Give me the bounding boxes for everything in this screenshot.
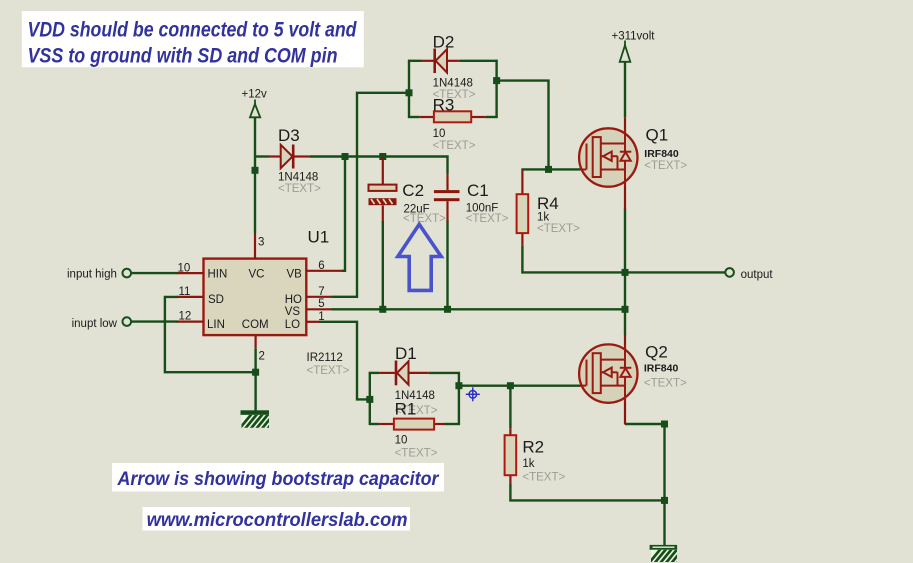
wire VS pin5 to midpoint rail: [332, 308, 626, 310]
wire COM pin2 to ground: [254, 348, 256, 410]
pin 2 stub COM: [255, 335, 257, 348]
svg-text:1N4148: 1N4148: [278, 172, 318, 184]
svg-text:D3: D3: [278, 126, 300, 145]
capacitor C2: [369, 157, 397, 223]
svg-text:10: 10: [178, 263, 191, 275]
transistor Q2: [579, 335, 638, 425]
terminal input high: [123, 269, 132, 278]
svg-text:output: output: [741, 269, 774, 281]
caption box VDD/VSS note: [22, 11, 364, 67]
wire D2/R3 loop left vertical: [408, 60, 410, 118]
wire +12v rail: [254, 117, 256, 233]
svg-text:<TEXT>: <TEXT>: [466, 213, 509, 225]
svg-text:Arrow is showing bootstrap cap: Arrow is showing bootstrap capacitor: [117, 468, 440, 490]
WIRES-GREEN: [131, 60, 725, 545]
junction D1/R1 loop left: [366, 396, 373, 403]
caption box arrow note: [112, 463, 444, 492]
svg-text:<TEXT>: <TEXT>: [433, 140, 476, 152]
resistor R2: [505, 428, 517, 484]
wire D2 left: [408, 60, 421, 62]
junction D2/R3 loop right: [493, 77, 500, 84]
svg-text:<TEXT>: <TEXT>: [395, 448, 438, 460]
svg-text:1k: 1k: [537, 212, 549, 224]
wire D1/R1 loop left vertical: [369, 372, 371, 425]
pin 11 stub SD: [177, 296, 204, 298]
ground COM: [236, 410, 288, 433]
svg-text:LIN: LIN: [207, 319, 225, 331]
svg-text:<TEXT>: <TEXT>: [522, 472, 565, 484]
resistor R4: [517, 169, 529, 245]
svg-text:<TEXT>: <TEXT>: [537, 223, 580, 235]
svg-text:VSS to ground with SD and COM: VSS to ground with SD and COM pin: [28, 45, 338, 68]
wire D1/R1 loop right vertical: [458, 372, 460, 425]
junction C1 bottom on VS net: [444, 306, 451, 313]
svg-text:<TEXT>: <TEXT>: [644, 160, 687, 172]
wire R3 left: [408, 116, 419, 118]
svg-text:input high: input high: [67, 269, 117, 281]
svg-text:R3: R3: [433, 96, 455, 115]
ic U1 IR2112 body: [204, 259, 307, 336]
junction HO net at D2 loop: [406, 89, 413, 96]
junction SD-COM net: [252, 369, 259, 376]
wire Q2 source to ground rail: [625, 424, 665, 545]
transistor Q1: [579, 117, 638, 209]
wire D1 left: [369, 372, 379, 374]
wire input high: [131, 272, 178, 274]
wire D2 right: [459, 60, 497, 62]
pin 6 stub VB: [306, 270, 342, 272]
svg-text:<TEXT>: <TEXT>: [644, 378, 687, 390]
svg-text:HO: HO: [285, 294, 302, 306]
diode D2: [421, 49, 459, 74]
wire R1 left: [369, 423, 379, 425]
resistor R3: [419, 111, 486, 122]
pin 5 stub VS: [306, 308, 331, 310]
svg-text:+12v: +12v: [242, 89, 268, 101]
svg-text:IRF840: IRF840: [644, 148, 679, 160]
junction C2 bottom on VS net: [379, 306, 386, 313]
diode D1: [379, 361, 428, 386]
svg-text:12: 12: [179, 311, 192, 323]
svg-text:VC: VC: [249, 269, 265, 281]
wire R2 bottom to ground rail: [510, 484, 665, 500]
svg-text:IRF840: IRF840: [644, 363, 679, 375]
svg-text:1k: 1k: [522, 458, 534, 470]
junction +12v rail: [252, 167, 259, 174]
capacitor C1: [434, 173, 460, 222]
wire R1 right: [445, 423, 460, 425]
wire SD pin11 to COM net: [165, 297, 257, 372]
wire gate Q2 horizontal: [459, 385, 580, 387]
pin 3 stub VC: [254, 233, 256, 259]
junction R2 top: [507, 382, 514, 389]
wire R4 bottom to output: [522, 246, 626, 273]
wire D1 right: [429, 372, 460, 374]
junction Q1 gate node: [545, 166, 552, 173]
svg-text:R2: R2: [522, 438, 544, 457]
svg-text:U1: U1: [308, 228, 330, 247]
wire C2 bottom lead: [382, 221, 384, 309]
svg-text:COM: COM: [242, 319, 269, 331]
wire output to terminal: [625, 271, 725, 273]
wire gate Q1 horizontal: [521, 168, 579, 170]
svg-text:6: 6: [318, 260, 324, 272]
svg-text:<TEXT>: <TEXT>: [307, 365, 350, 377]
wire Q2 drain from output node: [624, 309, 626, 335]
junction VB riser on D3 net: [342, 153, 349, 160]
wire +311 rail: [624, 62, 626, 118]
junction Q2 source corner: [661, 421, 668, 428]
svg-text:11: 11: [179, 286, 191, 298]
svg-text:IR2112: IR2112: [307, 352, 343, 364]
pin 12 stub LIN: [177, 321, 204, 323]
svg-text:3: 3: [258, 237, 264, 249]
junction VS at midpoint rail: [622, 306, 629, 313]
diode D3: [269, 145, 310, 169]
pin 7 stub HO: [306, 296, 331, 298]
wire D3 cathode to C1 top (VB node): [310, 157, 448, 174]
svg-text:Q1: Q1: [646, 126, 669, 145]
resistor R1: [379, 419, 444, 430]
origin marker (blue crosshair): [466, 387, 480, 401]
svg-text:VB: VB: [287, 269, 303, 281]
svg-text:10: 10: [395, 435, 408, 447]
svg-text:+311volt: +311volt: [612, 31, 656, 43]
power symbol +311volt: [620, 41, 631, 62]
svg-text:LO: LO: [285, 319, 300, 331]
svg-text:VS: VS: [285, 306, 301, 318]
svg-text:VDD should be connected to 5 v: VDD should be connected to 5 volt and: [28, 19, 358, 42]
wire VB pin6 riser: [342, 156, 345, 271]
svg-text:1: 1: [318, 311, 324, 323]
blue arrow annotation: [398, 224, 441, 290]
pin 1 stub LO: [306, 321, 319, 323]
pin 10 stub HIN: [177, 272, 204, 274]
junction R2 bottom on ground rail: [661, 497, 668, 504]
svg-text:10: 10: [433, 128, 446, 140]
svg-text:www.microcontrollerslab.com: www.microcontrollerslab.com: [147, 509, 408, 531]
wire input low: [131, 320, 178, 322]
wire LO pin1 to D1/R1 loop: [319, 322, 370, 400]
svg-text:SD: SD: [208, 294, 224, 306]
svg-text:<TEXT>: <TEXT>: [278, 183, 321, 195]
svg-text:5: 5: [318, 298, 324, 310]
wire gate Q1 from loop junction: [497, 81, 549, 170]
svg-text:Q2: Q2: [645, 343, 668, 362]
wire Q1 source down to output node: [624, 209, 626, 312]
terminal output: [725, 268, 734, 277]
wire D2/R3 loop right vertical: [495, 60, 497, 118]
svg-text:2: 2: [259, 351, 265, 363]
svg-text:HIN: HIN: [208, 269, 228, 281]
svg-text:R4: R4: [537, 194, 559, 213]
wire C1 bottom lead: [446, 221, 448, 310]
svg-text:R1: R1: [395, 400, 417, 419]
ground bottom right: [645, 545, 697, 563]
wire R3 right: [486, 116, 498, 118]
svg-text:1N4148: 1N4148: [433, 78, 473, 90]
wire D3 anode from +12v rail: [254, 155, 269, 157]
svg-text:C1: C1: [467, 181, 489, 200]
junction D1/R1 loop right gate Q2: [455, 382, 462, 389]
terminal input low: [123, 317, 132, 326]
svg-text:D1: D1: [395, 344, 417, 363]
wire HO pin7 riser: [332, 93, 410, 297]
svg-text:<TEXT>: <TEXT>: [403, 213, 446, 225]
svg-text:inupt low: inupt low: [72, 318, 118, 330]
svg-text:C2: C2: [402, 181, 424, 200]
junction C2 top on D3 net: [379, 153, 386, 160]
wire R2 top lead: [509, 386, 511, 428]
junction output node: [622, 269, 629, 276]
svg-text:7: 7: [318, 286, 324, 298]
caption box website: [143, 507, 411, 531]
power symbol +12v: [250, 100, 260, 118]
svg-text:D2: D2: [433, 33, 455, 52]
